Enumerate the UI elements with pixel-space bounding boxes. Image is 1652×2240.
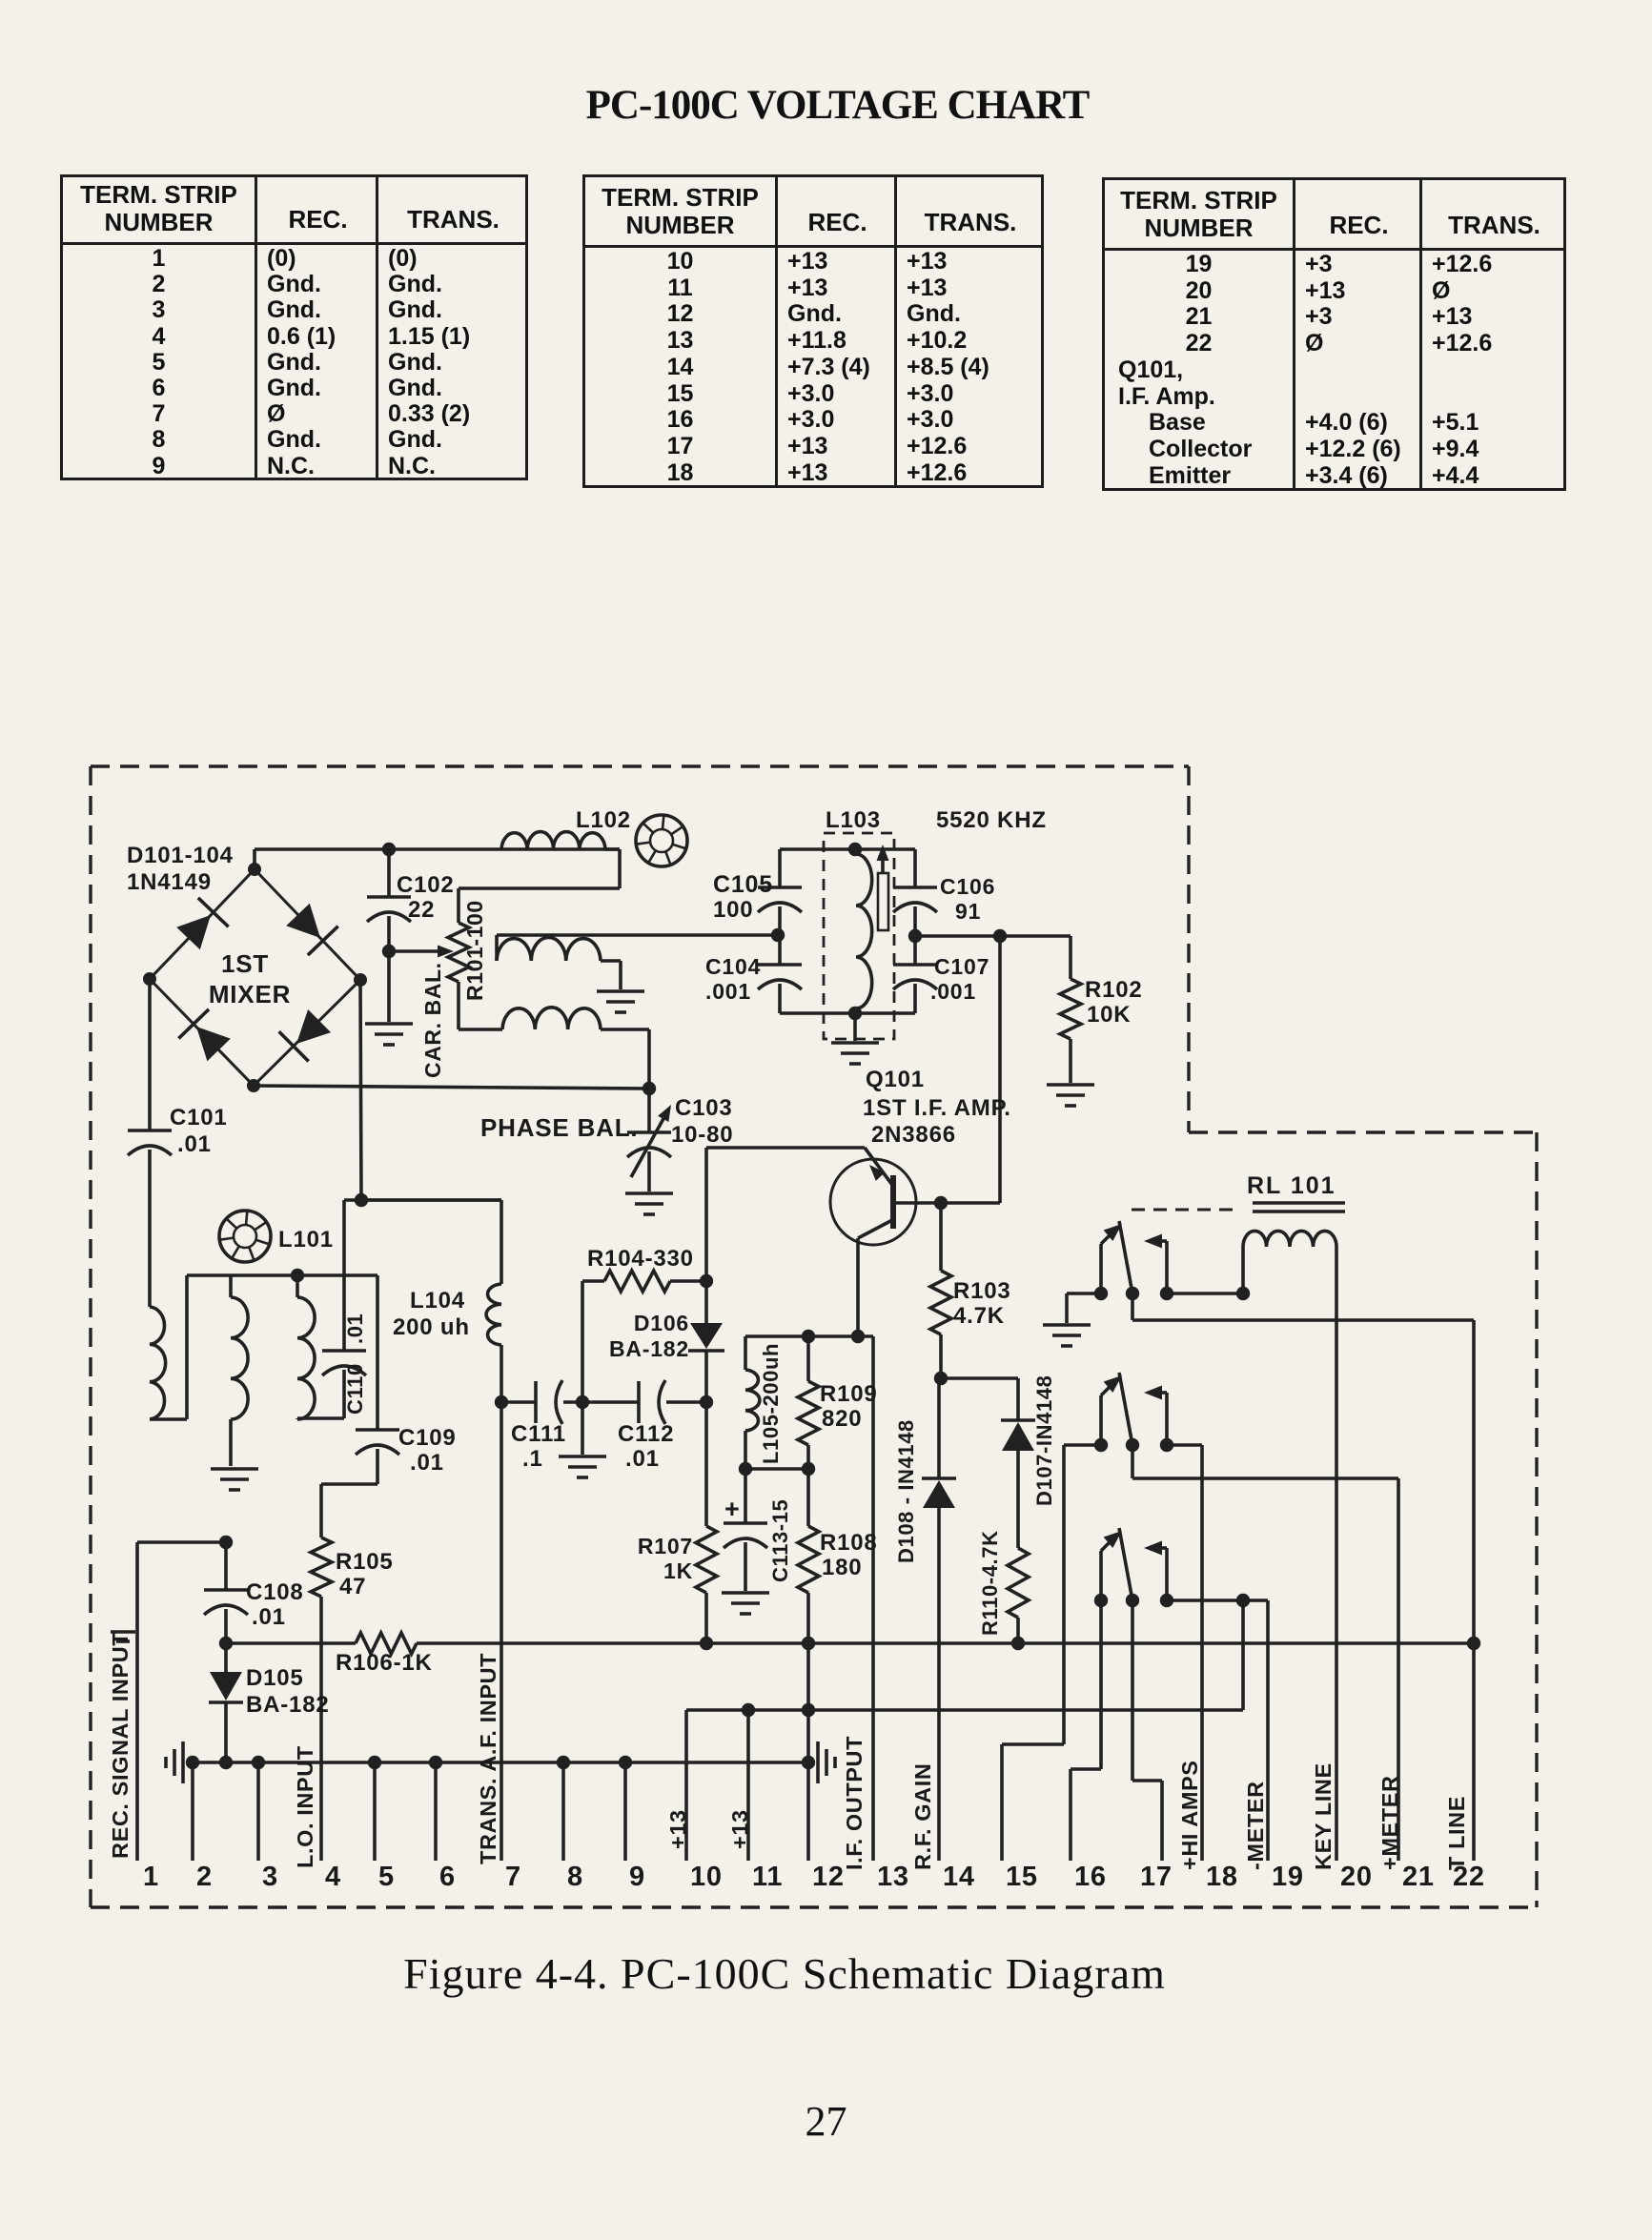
svg-text:200 uh: 200 uh: [393, 1314, 470, 1340]
svg-text:.01: .01: [625, 1446, 660, 1472]
svg-text:+13: +13: [665, 1809, 690, 1849]
svg-text:L103: L103: [826, 807, 881, 833]
svg-text:5: 5: [378, 1862, 395, 1892]
svg-text:6: 6: [439, 1862, 456, 1892]
svg-text:3: 3: [262, 1862, 278, 1892]
svg-text:+METER: +METER: [1377, 1775, 1402, 1870]
svg-text:L104: L104: [410, 1288, 465, 1313]
svg-text:8: 8: [567, 1862, 583, 1892]
svg-text:R102: R102: [1085, 977, 1143, 1003]
svg-text:Q101: Q101: [866, 1067, 925, 1092]
svg-text:D105: D105: [246, 1665, 304, 1691]
svg-text:21: 21: [1402, 1862, 1435, 1892]
svg-text:C101: C101: [170, 1105, 228, 1130]
svg-text:R.F. GAIN: R.F. GAIN: [910, 1763, 935, 1870]
svg-text:47: 47: [339, 1574, 366, 1599]
svg-text:L102: L102: [576, 807, 631, 833]
svg-text:PHASE BAL.: PHASE BAL.: [480, 1113, 638, 1142]
svg-text:1K: 1K: [663, 1558, 693, 1583]
svg-text:1: 1: [143, 1862, 159, 1892]
svg-text:D101-104: D101-104: [127, 843, 234, 868]
svg-text:C106: C106: [940, 874, 995, 899]
svg-text:11: 11: [752, 1862, 783, 1892]
svg-text:L101: L101: [278, 1227, 334, 1252]
svg-text:C113-15: C113-15: [768, 1499, 792, 1582]
svg-text:REC. SIGNAL INPUT: REC. SIGNAL INPUT: [108, 1632, 133, 1859]
svg-text:18: 18: [1206, 1862, 1238, 1892]
svg-text:RL 101: RL 101: [1247, 1172, 1336, 1199]
svg-text:100: 100: [713, 897, 753, 923]
svg-text:.1: .1: [522, 1446, 543, 1472]
svg-text:22: 22: [408, 897, 435, 923]
svg-text:C102: C102: [397, 872, 455, 898]
svg-text:C108: C108: [246, 1579, 304, 1605]
svg-text:14: 14: [943, 1862, 975, 1892]
svg-text:.001: .001: [930, 979, 976, 1004]
svg-text:CAR. BAL.: CAR. BAL.: [420, 962, 445, 1078]
svg-text:R106-1K: R106-1K: [336, 1650, 433, 1676]
svg-text:C104: C104: [705, 954, 761, 979]
svg-text:15: 15: [1006, 1862, 1038, 1892]
svg-text:1ST I.F. AMP.: 1ST I.F. AMP.: [863, 1095, 1011, 1121]
svg-text:2N3866: 2N3866: [871, 1122, 956, 1148]
svg-text:R104-330: R104-330: [587, 1246, 694, 1272]
svg-text:KEY LINE: KEY LINE: [1311, 1762, 1336, 1870]
svg-text:10: 10: [690, 1862, 723, 1892]
svg-text:10-80: 10-80: [671, 1122, 733, 1148]
svg-text:4: 4: [325, 1862, 341, 1892]
svg-text:R109: R109: [820, 1381, 878, 1407]
svg-text:19: 19: [1272, 1862, 1304, 1892]
svg-text:L.O. INPUT: L.O. INPUT: [293, 1745, 317, 1868]
svg-text:2: 2: [196, 1862, 213, 1892]
svg-text:.01: .01: [343, 1313, 367, 1344]
svg-text:C112: C112: [618, 1421, 674, 1447]
svg-text:20: 20: [1340, 1862, 1373, 1892]
svg-text:BA-182: BA-182: [246, 1692, 330, 1718]
svg-text:1ST: 1ST: [221, 949, 269, 978]
svg-text:17: 17: [1140, 1862, 1173, 1892]
svg-text:.001: .001: [705, 979, 751, 1004]
svg-text:91: 91: [955, 899, 981, 924]
svg-text:D106: D106: [634, 1311, 689, 1335]
svg-text:R101-100: R101-100: [462, 900, 487, 1001]
svg-text:L105-200uh: L105-200uh: [759, 1343, 783, 1464]
svg-text:D108 - IN4148: D108 - IN4148: [894, 1419, 918, 1563]
svg-text:C105: C105: [713, 871, 773, 898]
svg-text:16: 16: [1074, 1862, 1107, 1892]
svg-text:MIXER: MIXER: [209, 980, 291, 1008]
svg-text:5520 KHZ: 5520 KHZ: [936, 807, 1047, 833]
svg-text:.01: .01: [410, 1450, 444, 1476]
svg-text:C111: C111: [511, 1421, 566, 1447]
svg-text:R108: R108: [820, 1530, 878, 1556]
svg-text:9: 9: [629, 1862, 645, 1892]
svg-text:C107: C107: [934, 954, 989, 979]
svg-text:7: 7: [505, 1862, 521, 1892]
svg-text:10K: 10K: [1087, 1002, 1131, 1028]
svg-text:.01: .01: [177, 1131, 212, 1157]
svg-text:180: 180: [822, 1555, 862, 1580]
svg-text:-METER: -METER: [1243, 1781, 1268, 1870]
svg-text:D107-IN4148: D107-IN4148: [1032, 1375, 1056, 1506]
svg-text:I.F. OUTPUT: I.F. OUTPUT: [842, 1736, 867, 1870]
svg-text:1N4149: 1N4149: [127, 869, 212, 895]
svg-text:BA-182: BA-182: [609, 1336, 689, 1361]
svg-text:TRANS. A.F. INPUT: TRANS. A.F. INPUT: [476, 1653, 500, 1864]
svg-text:T LINE: T LINE: [1444, 1796, 1469, 1870]
svg-text:R107: R107: [638, 1534, 693, 1558]
svg-text:R110-4.7K: R110-4.7K: [978, 1530, 1002, 1636]
svg-text:+: +: [724, 1495, 741, 1523]
svg-text:C109: C109: [398, 1425, 457, 1451]
svg-text:C110: C110: [343, 1363, 367, 1415]
svg-text:820: 820: [822, 1406, 862, 1432]
svg-text:R105: R105: [336, 1549, 394, 1575]
svg-text:13: 13: [877, 1862, 909, 1892]
svg-text:.01: .01: [252, 1604, 286, 1630]
svg-text:12: 12: [812, 1862, 845, 1892]
svg-text:C103: C103: [675, 1095, 733, 1121]
svg-text:+HI AMPS: +HI AMPS: [1177, 1760, 1202, 1870]
svg-text:4.7K: 4.7K: [953, 1303, 1005, 1329]
svg-text:+13: +13: [727, 1809, 752, 1849]
svg-text:R103: R103: [953, 1278, 1011, 1304]
